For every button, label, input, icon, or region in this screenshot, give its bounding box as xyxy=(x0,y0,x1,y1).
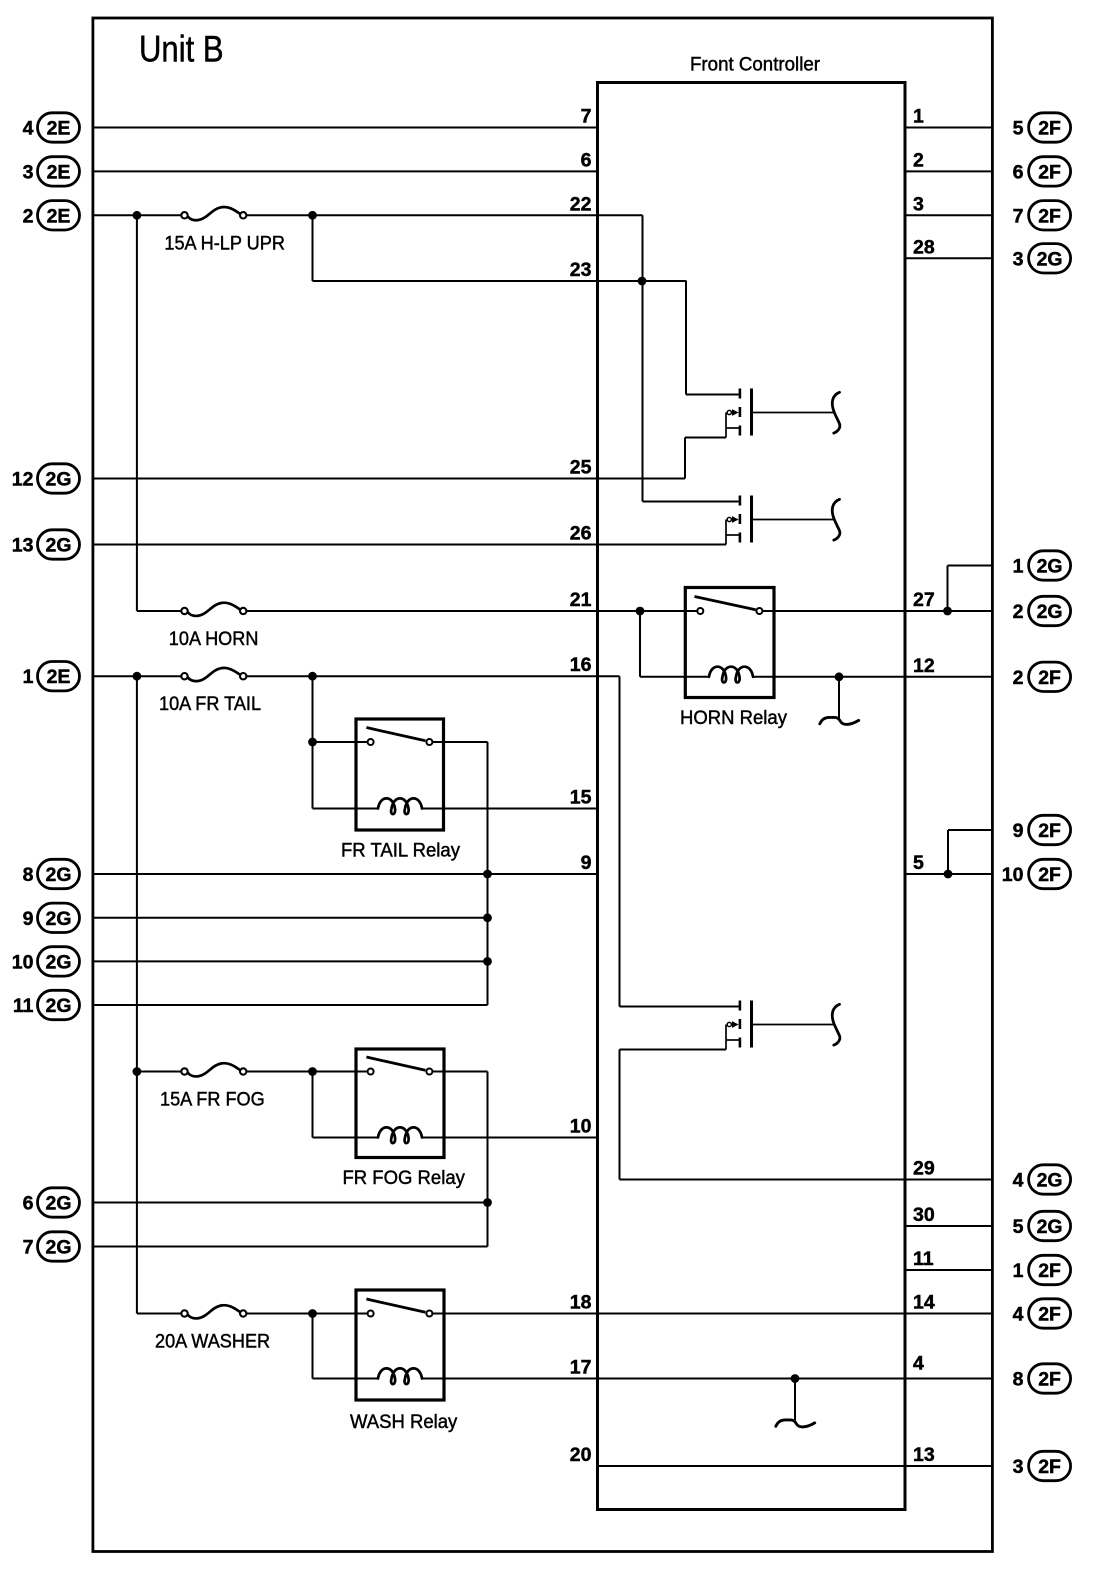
svg-text:2G: 2G xyxy=(1037,556,1063,578)
svg-text:2G: 2G xyxy=(45,535,71,557)
svg-text:2E: 2E xyxy=(47,118,71,140)
svg-text:2F: 2F xyxy=(1038,864,1061,886)
svg-text:2G: 2G xyxy=(45,908,71,930)
svg-text:4: 4 xyxy=(913,1353,924,1375)
svg-text:28: 28 xyxy=(913,236,935,258)
svg-text:1: 1 xyxy=(1013,556,1024,578)
svg-text:10: 10 xyxy=(12,951,34,973)
svg-text:2: 2 xyxy=(1013,601,1024,623)
svg-text:5: 5 xyxy=(913,852,924,874)
svg-text:4: 4 xyxy=(1013,1170,1024,1192)
svg-text:13: 13 xyxy=(12,535,34,557)
svg-text:7: 7 xyxy=(581,106,592,128)
svg-text:2E: 2E xyxy=(47,161,71,183)
svg-text:3: 3 xyxy=(913,193,924,215)
svg-text:2G: 2G xyxy=(45,1193,71,1215)
svg-text:10: 10 xyxy=(570,1116,592,1138)
svg-text:6: 6 xyxy=(1013,161,1024,183)
svg-text:Front Controller: Front Controller xyxy=(690,54,821,75)
svg-text:2G: 2G xyxy=(1037,248,1063,270)
svg-text:FR FOG Relay: FR FOG Relay xyxy=(343,1168,466,1190)
svg-text:2G: 2G xyxy=(1037,1216,1063,1238)
svg-text:2F: 2F xyxy=(1038,667,1061,689)
svg-text:2G: 2G xyxy=(45,469,71,491)
svg-text:7: 7 xyxy=(1013,205,1024,227)
svg-text:2E: 2E xyxy=(47,205,71,227)
svg-text:12: 12 xyxy=(913,655,935,677)
svg-text:11: 11 xyxy=(913,1248,934,1270)
svg-text:2E: 2E xyxy=(47,666,71,688)
svg-text:10A HORN: 10A HORN xyxy=(169,627,259,649)
svg-text:20A WASHER: 20A WASHER xyxy=(155,1330,270,1352)
svg-text:13: 13 xyxy=(913,1444,935,1466)
svg-text:2F: 2F xyxy=(1038,205,1061,227)
svg-text:4: 4 xyxy=(1013,1304,1024,1326)
svg-text:20: 20 xyxy=(570,1444,592,1466)
svg-text:15A H-LP UPR: 15A H-LP UPR xyxy=(164,232,285,254)
svg-text:2: 2 xyxy=(1013,667,1024,689)
svg-text:5: 5 xyxy=(1013,1216,1024,1238)
svg-text:1: 1 xyxy=(1013,1260,1024,1282)
svg-text:21: 21 xyxy=(570,589,592,611)
svg-text:2G: 2G xyxy=(45,864,71,886)
svg-text:16: 16 xyxy=(570,654,592,676)
svg-text:2: 2 xyxy=(913,149,924,171)
svg-text:26: 26 xyxy=(570,523,592,545)
svg-text:27: 27 xyxy=(913,589,935,611)
svg-text:2: 2 xyxy=(23,205,34,227)
svg-text:2F: 2F xyxy=(1038,118,1061,140)
svg-text:15: 15 xyxy=(570,787,592,809)
svg-text:3: 3 xyxy=(23,161,34,183)
svg-text:29: 29 xyxy=(913,1158,935,1180)
svg-text:2G: 2G xyxy=(45,995,71,1017)
svg-text:2G: 2G xyxy=(45,1237,71,1259)
svg-text:30: 30 xyxy=(913,1204,935,1226)
svg-text:11: 11 xyxy=(13,995,34,1017)
svg-text:10A FR TAIL: 10A FR TAIL xyxy=(159,693,261,715)
svg-text:10: 10 xyxy=(1002,864,1024,886)
svg-text:2F: 2F xyxy=(1038,820,1061,842)
svg-text:15A FR FOG: 15A FR FOG xyxy=(160,1088,265,1110)
svg-text:17: 17 xyxy=(570,1357,592,1379)
svg-text:9: 9 xyxy=(23,908,34,930)
svg-text:2F: 2F xyxy=(1038,1456,1061,1478)
svg-text:25: 25 xyxy=(570,457,592,479)
svg-text:12: 12 xyxy=(12,469,34,491)
svg-text:FR TAIL Relay: FR TAIL Relay xyxy=(341,840,460,862)
svg-text:2F: 2F xyxy=(1038,161,1061,183)
svg-text:2G: 2G xyxy=(45,951,71,973)
svg-text:1: 1 xyxy=(913,106,924,128)
svg-text:8: 8 xyxy=(1013,1369,1024,1391)
svg-text:2F: 2F xyxy=(1038,1260,1061,1282)
svg-text:9: 9 xyxy=(581,852,592,874)
svg-text:2G: 2G xyxy=(1037,1170,1063,1192)
svg-text:18: 18 xyxy=(570,1292,592,1314)
svg-text:23: 23 xyxy=(570,259,592,281)
svg-text:2F: 2F xyxy=(1038,1369,1061,1391)
svg-text:1: 1 xyxy=(23,666,34,688)
svg-text:14: 14 xyxy=(913,1292,935,1314)
svg-text:HORN Relay: HORN Relay xyxy=(680,708,787,730)
svg-text:22: 22 xyxy=(570,193,592,215)
svg-text:2F: 2F xyxy=(1038,1304,1061,1326)
svg-text:6: 6 xyxy=(581,149,592,171)
svg-text:7: 7 xyxy=(23,1237,34,1259)
svg-text:WASH Relay: WASH Relay xyxy=(350,1412,458,1434)
svg-text:5: 5 xyxy=(1013,118,1024,140)
svg-text:8: 8 xyxy=(23,864,34,886)
svg-text:6: 6 xyxy=(23,1193,34,1215)
svg-text:9: 9 xyxy=(1013,820,1024,842)
svg-text:2G: 2G xyxy=(1037,601,1063,623)
svg-text:3: 3 xyxy=(1013,248,1024,270)
svg-text:Unit B: Unit B xyxy=(139,29,224,70)
svg-text:3: 3 xyxy=(1013,1456,1024,1478)
svg-text:4: 4 xyxy=(23,118,34,140)
